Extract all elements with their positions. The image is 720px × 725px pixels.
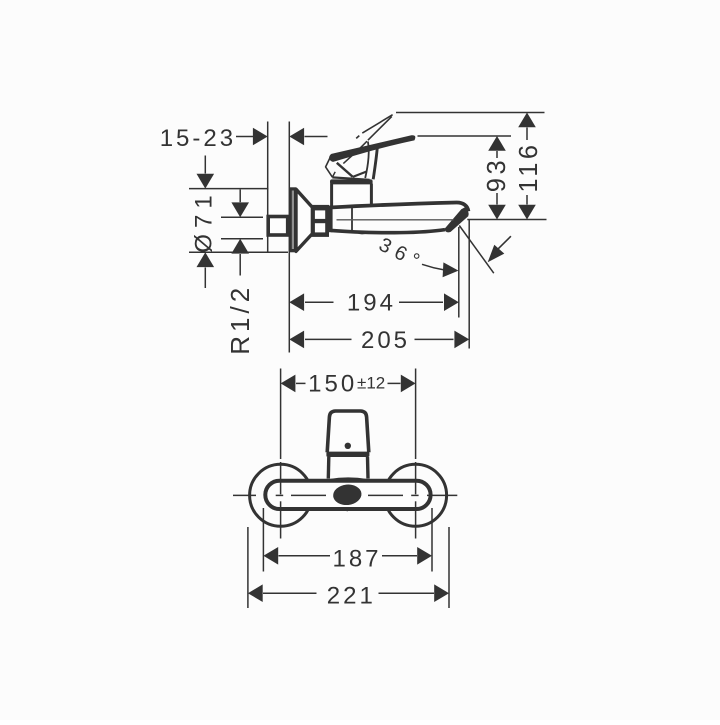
- aerator outlet blob (front view): [332, 483, 362, 506]
- dimension arrow pipe top: [239, 190, 241, 203]
- svg-text:116: 116: [515, 141, 543, 192]
- valve body (side view): [332, 184, 372, 206]
- extension line O71 top: [189, 188, 268, 190]
- lever neck rear edge (side view): [373, 149, 377, 180]
- spout bottom edge (side view): [331, 230, 445, 233]
- lever neck front edge (side view): [365, 142, 368, 179]
- body bar pill (front view): [265, 481, 430, 509]
- spout left edge (side view): [329, 206, 333, 233]
- svg-text:R1/2: R1/2: [225, 284, 255, 355]
- wall line 2 (wall face at escutcheon, side view): [288, 122, 290, 353]
- extension line 221 right (x=449): [448, 527, 450, 608]
- handle neck (front view): [327, 457, 331, 479]
- extension line 205 right (x=469.2): [468, 220, 470, 349]
- handle front view outline: [327, 411, 369, 452]
- spout cut extension line: [459, 226, 494, 274]
- spout top edge (side view): [330, 202, 469, 211]
- extension line lever top (y=112.5): [396, 112, 545, 114]
- vertical centerline right circle (front view): [415, 406, 417, 459]
- dimension arrow O71 bottom: [197, 252, 215, 267]
- svg-text:194: 194: [347, 290, 396, 317]
- cartridge cap bar (side view): [330, 179, 373, 184]
- dimension 150 +/-12: [281, 375, 296, 393]
- spout tip cut wedge (side view): [445, 207, 469, 232]
- dimension arrow 15-23 left: [236, 136, 254, 138]
- svg-text:15-23: 15-23: [160, 125, 236, 152]
- wall line 1 (finished wall, side view): [267, 122, 269, 253]
- leader arrow at spout tip: [498, 236, 511, 249]
- svg-text:±12: ±12: [357, 374, 385, 393]
- lever underside dome lines (side view): [337, 163, 353, 177]
- dimension 221: [248, 584, 263, 602]
- extension line 150 right (x=415.6): [415, 369, 417, 407]
- escutcheon cone (side view): [296, 189, 312, 251]
- lever inner highlight line (side view): [343, 141, 367, 163]
- extension line 221 left (x=247.9): [247, 527, 249, 608]
- spout centerline (side view): [337, 219, 454, 221]
- dimension 187: [263, 547, 278, 565]
- spout underside notch (side view): [356, 232, 368, 234]
- lever fin upper line (side view): [362, 115, 392, 133]
- svg-text:221: 221: [327, 583, 376, 610]
- svg-text:187: 187: [332, 546, 381, 573]
- dimension arrow 93 top: [488, 136, 506, 151]
- extension line pipe bottom: [221, 238, 263, 240]
- left escutcheon circle (front view): [250, 464, 312, 526]
- extension line 150 left (x=280.6): [280, 369, 282, 407]
- dimension arrow 116 top: [518, 113, 536, 128]
- svg-text:93: 93: [483, 157, 511, 192]
- dimension arrow O71 top: [204, 156, 206, 174]
- right escutcheon circle (front view): [385, 464, 447, 526]
- lever fin lower line (side view): [368, 116, 392, 140]
- svg-text:36°: 36°: [375, 234, 428, 275]
- extension line O71 bottom: [189, 251, 288, 253]
- dimension arrow pipe bottom: [231, 239, 249, 254]
- pipe stub (R1/2 inlet, side view): [268, 217, 288, 236]
- svg-text:Ø71: Ø71: [191, 189, 218, 252]
- leader line 36deg: [422, 264, 444, 270]
- extension line lever tip (y=136): [418, 135, 512, 137]
- dimension 205: [289, 331, 304, 349]
- dimension arrow 93 bottom: [496, 193, 498, 205]
- extension line spout outlet (y=219.5): [467, 219, 546, 221]
- union nut (side view): [312, 205, 329, 237]
- extension line pipe top: [221, 216, 263, 218]
- handle base band (front view): [326, 452, 369, 457]
- spout seam line (side view): [351, 207, 353, 231]
- lever front lip (side view): [326, 157, 333, 177]
- body top arch between neck (front view): [330, 479, 368, 481]
- lever handle main stroke (side view): [330, 136, 415, 162]
- escutcheon base plate (side view): [289, 187, 296, 252]
- svg-text:150: 150: [308, 371, 357, 398]
- svg-text:205: 205: [361, 327, 410, 354]
- extension line 187 left (x=263.4): [262, 508, 264, 572]
- dimension arrow 116 bottom: [526, 195, 528, 205]
- handle dot (front view): [345, 443, 351, 449]
- aerator lower lip (front view): [337, 505, 361, 511]
- extension line 194 right (x=458.8): [458, 227, 460, 318]
- dimension arrow 15-23 right: [289, 128, 304, 146]
- vertical centerline left circle (front view): [280, 406, 282, 459]
- dimension 194: [289, 293, 304, 311]
- extension line 187 right (x=432): [431, 508, 433, 572]
- horizontal centerline (front view): [233, 494, 256, 496]
